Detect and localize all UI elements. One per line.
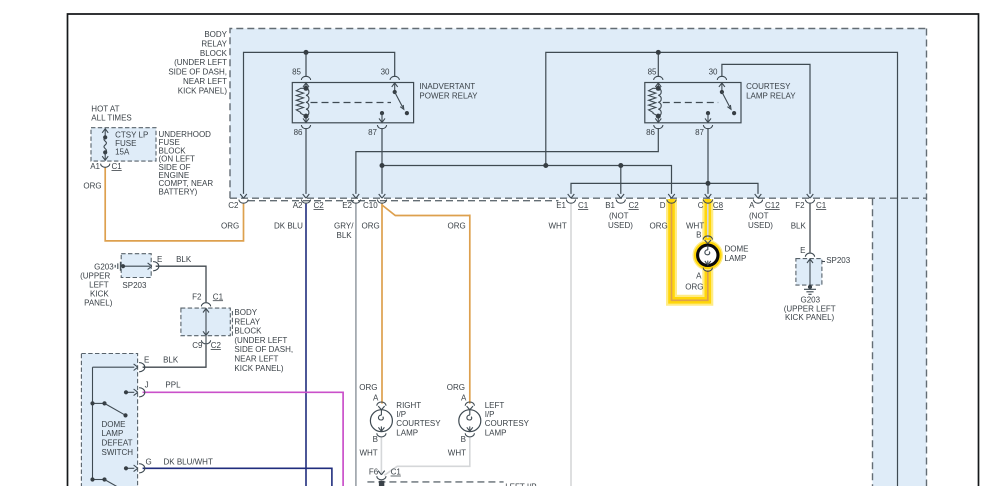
connector F6/C1: [377, 471, 386, 480]
wire WHT left lamp B joining F6/C1: [384, 438, 470, 476]
svg-text:E: E: [144, 356, 149, 365]
ground G203 right: [804, 287, 816, 294]
svg-text:DOME: DOME: [725, 245, 749, 254]
wire ORG dome lamp U path: [672, 204, 708, 301]
wire relay1 top bus: [244, 52, 395, 194]
ground G203 left labels: [80, 262, 114, 307]
wire BLK E to F2/C1 left: [156, 266, 206, 302]
wire BLK C9/C2 to defeat switch E: [143, 345, 206, 367]
svg-text:ORG: ORG: [221, 222, 239, 231]
svg-text:COURTESY: COURTESY: [485, 419, 530, 428]
wire WHT from E1: [570, 204, 572, 486]
wire ORG branch to left lamp: [382, 205, 470, 404]
svg-text:DOME: DOME: [102, 420, 126, 429]
svg-text:86: 86: [294, 128, 303, 137]
white inner group box fill: [248, 201, 873, 486]
wire DK BLU from A2/C2: [305, 204, 307, 486]
svg-text:86: 86: [646, 128, 655, 137]
svg-text:(NOT: (NOT: [749, 212, 769, 221]
svg-text:DK BLU: DK BLU: [274, 222, 303, 231]
relay U2 switch: [705, 83, 736, 123]
svg-text:D: D: [660, 201, 666, 210]
wire relay1 pin86 to A2: [305, 128, 307, 194]
svg-text:ORG: ORG: [650, 222, 668, 231]
connector B1/C2 not used: [616, 194, 625, 203]
connector A2/C2: [301, 194, 310, 203]
svg-text:RELAY: RELAY: [201, 39, 227, 48]
wire BLK from F2/C1 to E splice: [809, 204, 811, 253]
connector E right: [805, 253, 814, 257]
svg-text:USED): USED): [608, 221, 633, 230]
relay U1 dashed actuator link: [311, 102, 392, 104]
svg-text:LAMP: LAMP: [485, 428, 507, 437]
svg-text:B: B: [696, 231, 701, 240]
svg-text:SP203: SP203: [122, 281, 147, 290]
wire relay2 pin30 to F2: [722, 64, 810, 194]
svg-text:HOT AT: HOT AT: [91, 105, 119, 114]
connector G defeat: [134, 464, 145, 473]
svg-text:G203: G203: [94, 262, 114, 271]
svg-text:ORG: ORG: [448, 222, 466, 231]
svg-text:LAMP: LAMP: [102, 429, 124, 438]
svg-text:WHT: WHT: [686, 222, 704, 231]
connector C1 fuse: [101, 164, 110, 168]
svg-text:INADVERTANT: INADVERTANT: [419, 82, 475, 91]
svg-text:LAMP: LAMP: [725, 254, 747, 263]
relay U2 dashed actuator link: [663, 102, 718, 104]
svg-text:ORG: ORG: [362, 222, 380, 231]
wire relay2 pin85 feed: [657, 52, 659, 77]
highlight: dome lamp circuit trace: [672, 199, 719, 300]
connector E defeat: [134, 363, 145, 372]
svg-text:87: 87: [695, 128, 704, 137]
svg-text:E: E: [157, 255, 162, 264]
svg-text:C2: C2: [629, 201, 640, 210]
wire relay1 pin87 net to C10, B1, D: [382, 128, 672, 194]
svg-text:B: B: [461, 435, 466, 444]
splice SP203 right internal: [807, 259, 813, 290]
svg-text:(UNDER LEFT: (UNDER LEFT: [234, 336, 287, 345]
inner group box dashed border: [248, 200, 558, 202]
svg-text:DK BLU/WHT: DK BLU/WHT: [164, 458, 213, 467]
right blue strip: [873, 198, 927, 486]
svg-text:LAMP: LAMP: [396, 428, 418, 437]
body relay block pass-through: [203, 308, 209, 336]
svg-text:I/P: I/P: [396, 410, 406, 419]
svg-text:A1: A1: [90, 162, 100, 171]
svg-text:C: C: [698, 201, 704, 210]
label tick body relay small: [231, 311, 233, 338]
dome lamp defeat switch box: [81, 354, 137, 486]
defeat switch internals: [90, 367, 134, 486]
svg-text:LEFT I/P: LEFT I/P: [505, 483, 536, 486]
relay U1 pin cups: [301, 76, 310, 80]
fuse CTSY LP 15A: [102, 128, 108, 160]
svg-text:BLK: BLK: [791, 222, 807, 231]
wire ORG fuse to C2: [105, 167, 243, 241]
BODY RELAY BLOCK light blue region: [230, 29, 927, 199]
svg-text:SIDE OF DASH,: SIDE OF DASH,: [168, 68, 227, 77]
svg-text:USED): USED): [748, 221, 773, 230]
svg-text:NEAR LEFT: NEAR LEFT: [234, 355, 278, 364]
svg-text:SP203: SP203: [826, 256, 851, 265]
svg-text:DEFEAT: DEFEAT: [102, 439, 133, 448]
svg-text:WHT: WHT: [448, 448, 466, 457]
svg-text:KICK PANEL): KICK PANEL): [234, 364, 284, 373]
connector E left: [148, 262, 159, 271]
svg-text:WHT: WHT: [359, 448, 377, 457]
svg-text:C1: C1: [213, 292, 224, 301]
connector F2/C1 left: [201, 303, 210, 307]
svg-text:J: J: [145, 381, 149, 390]
wire stub into bottom box: [379, 481, 384, 486]
SP203 right label tick: [822, 261, 825, 263]
svg-text:E2: E2: [342, 201, 352, 210]
wire GRY/BLK from E2: [355, 204, 357, 486]
svg-text:C1: C1: [391, 468, 402, 477]
svg-text:(UNDER LEFT: (UNDER LEFT: [174, 58, 227, 67]
svg-text:15A: 15A: [115, 148, 130, 157]
connector F2/C1 right: [805, 194, 814, 203]
relay U2 pin cups: [654, 76, 663, 80]
svg-text:C12: C12: [765, 201, 780, 210]
svg-text:COURTESY: COURTESY: [396, 419, 441, 428]
svg-text:ORG: ORG: [359, 383, 377, 392]
connector E2: [351, 194, 360, 203]
svg-text:30: 30: [709, 68, 718, 77]
svg-text:85: 85: [648, 68, 657, 77]
splice SP203 left box: [121, 254, 151, 278]
svg-text:E1: E1: [556, 201, 566, 210]
svg-text:PANEL): PANEL): [84, 299, 113, 308]
wire relay1 pin85 feed: [305, 52, 307, 77]
svg-text:C1: C1: [578, 201, 589, 210]
svg-text:C2: C2: [228, 201, 239, 210]
svg-text:C10: C10: [363, 201, 378, 210]
svg-text:G: G: [146, 458, 152, 467]
connector C/C8: [703, 194, 712, 203]
wire E2 to relay2 pin86: [356, 128, 658, 194]
svg-text:C8: C8: [713, 201, 724, 210]
svg-text:F6: F6: [369, 468, 379, 477]
wire PPL from J: [143, 392, 344, 486]
svg-text:C2: C2: [211, 341, 222, 350]
svg-text:POWER RELAY: POWER RELAY: [419, 92, 478, 101]
wire WHT right lamp B to F6/C1: [380, 438, 382, 483]
svg-text:BLOCK: BLOCK: [200, 49, 228, 58]
svg-text:NEAR LEFT: NEAR LEFT: [183, 77, 227, 86]
svg-text:C2: C2: [314, 201, 325, 210]
svg-text:BODY: BODY: [234, 308, 257, 317]
op region: relay 1 box: [292, 83, 413, 123]
svg-text:87: 87: [368, 128, 377, 137]
svg-text:BATTERY): BATTERY): [159, 187, 198, 196]
svg-text:85: 85: [292, 68, 301, 77]
svg-text:KICK PANEL): KICK PANEL): [785, 313, 835, 322]
svg-text:F2: F2: [795, 201, 805, 210]
connector C9/C2: [205, 336, 207, 345]
svg-text:A: A: [749, 201, 755, 210]
svg-text:A: A: [373, 394, 379, 403]
svg-text:COURTESY: COURTESY: [746, 82, 791, 91]
connector C10: [377, 194, 386, 203]
svg-text:(UPPER: (UPPER: [80, 271, 110, 280]
svg-text:B: B: [373, 435, 378, 444]
svg-text:KICK: KICK: [90, 290, 109, 299]
body relay block small box: [181, 308, 230, 336]
svg-text:WHT: WHT: [549, 222, 567, 231]
svg-text:BLK: BLK: [337, 231, 353, 240]
svg-text:(NOT: (NOT: [609, 212, 629, 221]
ground G203 left: [115, 262, 123, 271]
svg-text:GRY/: GRY/: [334, 222, 354, 231]
svg-text:ALL TIMES: ALL TIMES: [91, 114, 131, 123]
svg-text:A: A: [461, 394, 467, 403]
lamp: right I/P courtesy lamp: [370, 402, 392, 437]
svg-text:PPL: PPL: [165, 381, 181, 390]
lamp: left I/P courtesy lamp: [459, 402, 481, 437]
label body relay block top: [168, 30, 227, 95]
svg-text:LEFT: LEFT: [485, 401, 505, 410]
svg-text:E: E: [800, 246, 805, 255]
svg-text:A2: A2: [293, 201, 303, 210]
svg-text:I/P: I/P: [485, 410, 495, 419]
svg-text:C1: C1: [112, 162, 123, 171]
svg-text:RELAY: RELAY: [234, 317, 260, 326]
svg-text:KICK PANEL): KICK PANEL): [178, 86, 228, 95]
svg-text:ORG: ORG: [83, 182, 101, 191]
junction dots: [304, 50, 309, 55]
svg-text:BLK: BLK: [176, 255, 192, 264]
svg-text:(UPPER LEFT: (UPPER LEFT: [784, 304, 836, 313]
svg-text:C1: C1: [816, 201, 827, 210]
wire ORG from C10 to right lamp: [381, 204, 383, 404]
connector A/C12 not used: [753, 194, 762, 203]
svg-text:B1: B1: [605, 201, 615, 210]
relay U1 coil: [296, 83, 309, 123]
fuse block box: [91, 128, 156, 161]
svg-text:LAMP RELAY: LAMP RELAY: [746, 92, 796, 101]
wire DK BLU/WHT from G: [143, 468, 332, 486]
svg-text:LEFT: LEFT: [89, 281, 109, 290]
svg-text:BLOCK: BLOCK: [234, 327, 262, 336]
bottom partial box LEFT I/P: [367, 481, 503, 483]
splice SP203 left internal: [121, 264, 150, 268]
svg-text:CTSY LP: CTSY LP: [115, 130, 148, 139]
relay U2 coil: [649, 83, 662, 123]
ground G203 right splice SP203 box: [796, 259, 822, 286]
svg-text:BODY: BODY: [204, 30, 227, 39]
svg-text:ORG: ORG: [685, 283, 703, 292]
svg-text:A: A: [696, 272, 702, 281]
connector D: [667, 194, 676, 203]
svg-text:BLK: BLK: [163, 356, 179, 365]
svg-text:ORG: ORG: [447, 383, 465, 392]
connector E1/C1: [566, 194, 575, 203]
svg-text:SIDE OF DASH,: SIDE OF DASH,: [234, 345, 293, 354]
svg-text:F2: F2: [192, 292, 202, 301]
op region: relay 2 box: [645, 83, 741, 123]
relay U1 switch: [379, 83, 409, 123]
wire WHT from C to dome lamp: [707, 204, 709, 238]
connector J defeat: [134, 388, 145, 397]
lamp: dome lamp: [698, 236, 718, 271]
svg-text:G203: G203: [801, 296, 821, 305]
svg-text:RIGHT: RIGHT: [396, 401, 421, 410]
svg-text:30: 30: [381, 68, 390, 77]
wire relay2 pin87 net to C, E1, A: [571, 128, 758, 194]
svg-text:C9: C9: [192, 341, 203, 350]
wire relay2 top bus: [546, 52, 898, 486]
svg-text:SWITCH: SWITCH: [102, 448, 134, 457]
connector C2 relay block left: [239, 194, 248, 203]
BODY RELAY BLOCK dashed border: [230, 29, 927, 199]
